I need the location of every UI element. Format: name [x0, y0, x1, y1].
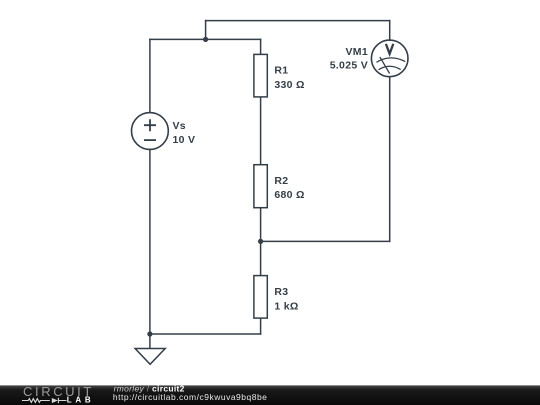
node junction mid (node B) [258, 239, 263, 244]
wire right branch upper (top wire to VM1) [389, 21, 391, 40]
wire between R1 and R2 [260, 97, 262, 165]
node junction bottom (ground node) [147, 331, 152, 336]
svg-text:LAB: LAB [67, 395, 95, 404]
voltmeter VM1 V symbol [386, 44, 393, 54]
voltmeter VM1 [371, 40, 408, 77]
resistor R2 [254, 165, 267, 208]
wire R3 bottom lead [260, 318, 262, 334]
svg-text:5.025 V: 5.025 V [330, 60, 368, 72]
svg-text:680 Ω: 680 Ω [274, 189, 304, 201]
wire mid horizontal (node B to voltmeter branch) [261, 240, 390, 242]
svg-text:R2: R2 [274, 175, 288, 187]
wire top horizontal (node A to voltmeter) [206, 20, 390, 22]
wire bottom horizontal (R3 to ground node) [150, 333, 261, 335]
wire R1 top lead [260, 39, 262, 54]
wire between R2 and R3 [260, 208, 262, 276]
svg-text:Vs: Vs [173, 120, 186, 132]
svg-text:330 Ω: 330 Ω [274, 79, 304, 91]
wire left branch lower (Vs bottom to ground node) [149, 149, 151, 334]
wire ground lead [149, 334, 151, 349]
svg-text:10 V: 10 V [173, 134, 196, 146]
svg-text:VM1: VM1 [346, 46, 369, 58]
svg-text:http://circuitlab.com/c9kwuva9: http://circuitlab.com/c9kwuva9bq8be [113, 392, 268, 402]
logo resistor zigzag and diode [22, 398, 67, 404]
svg-text:1 kΩ: 1 kΩ [274, 300, 298, 312]
resistor R3 [254, 276, 267, 319]
wire second horizontal (Vs top to R1 top) [150, 38, 261, 40]
ground [135, 349, 165, 365]
logo diode triangle [52, 398, 58, 403]
svg-text:R3: R3 [274, 286, 288, 298]
footer bar [0, 385, 540, 405]
wire top-left vertical drop to junction [205, 21, 207, 40]
voltage source Vs [132, 113, 169, 150]
svg-text:R1: R1 [274, 65, 288, 77]
resistor R1 [254, 54, 267, 97]
wire right branch lower (VM1 to mid wire) [389, 77, 391, 242]
node junction top [203, 37, 208, 42]
wire left branch upper (to Vs top) [149, 39, 151, 112]
